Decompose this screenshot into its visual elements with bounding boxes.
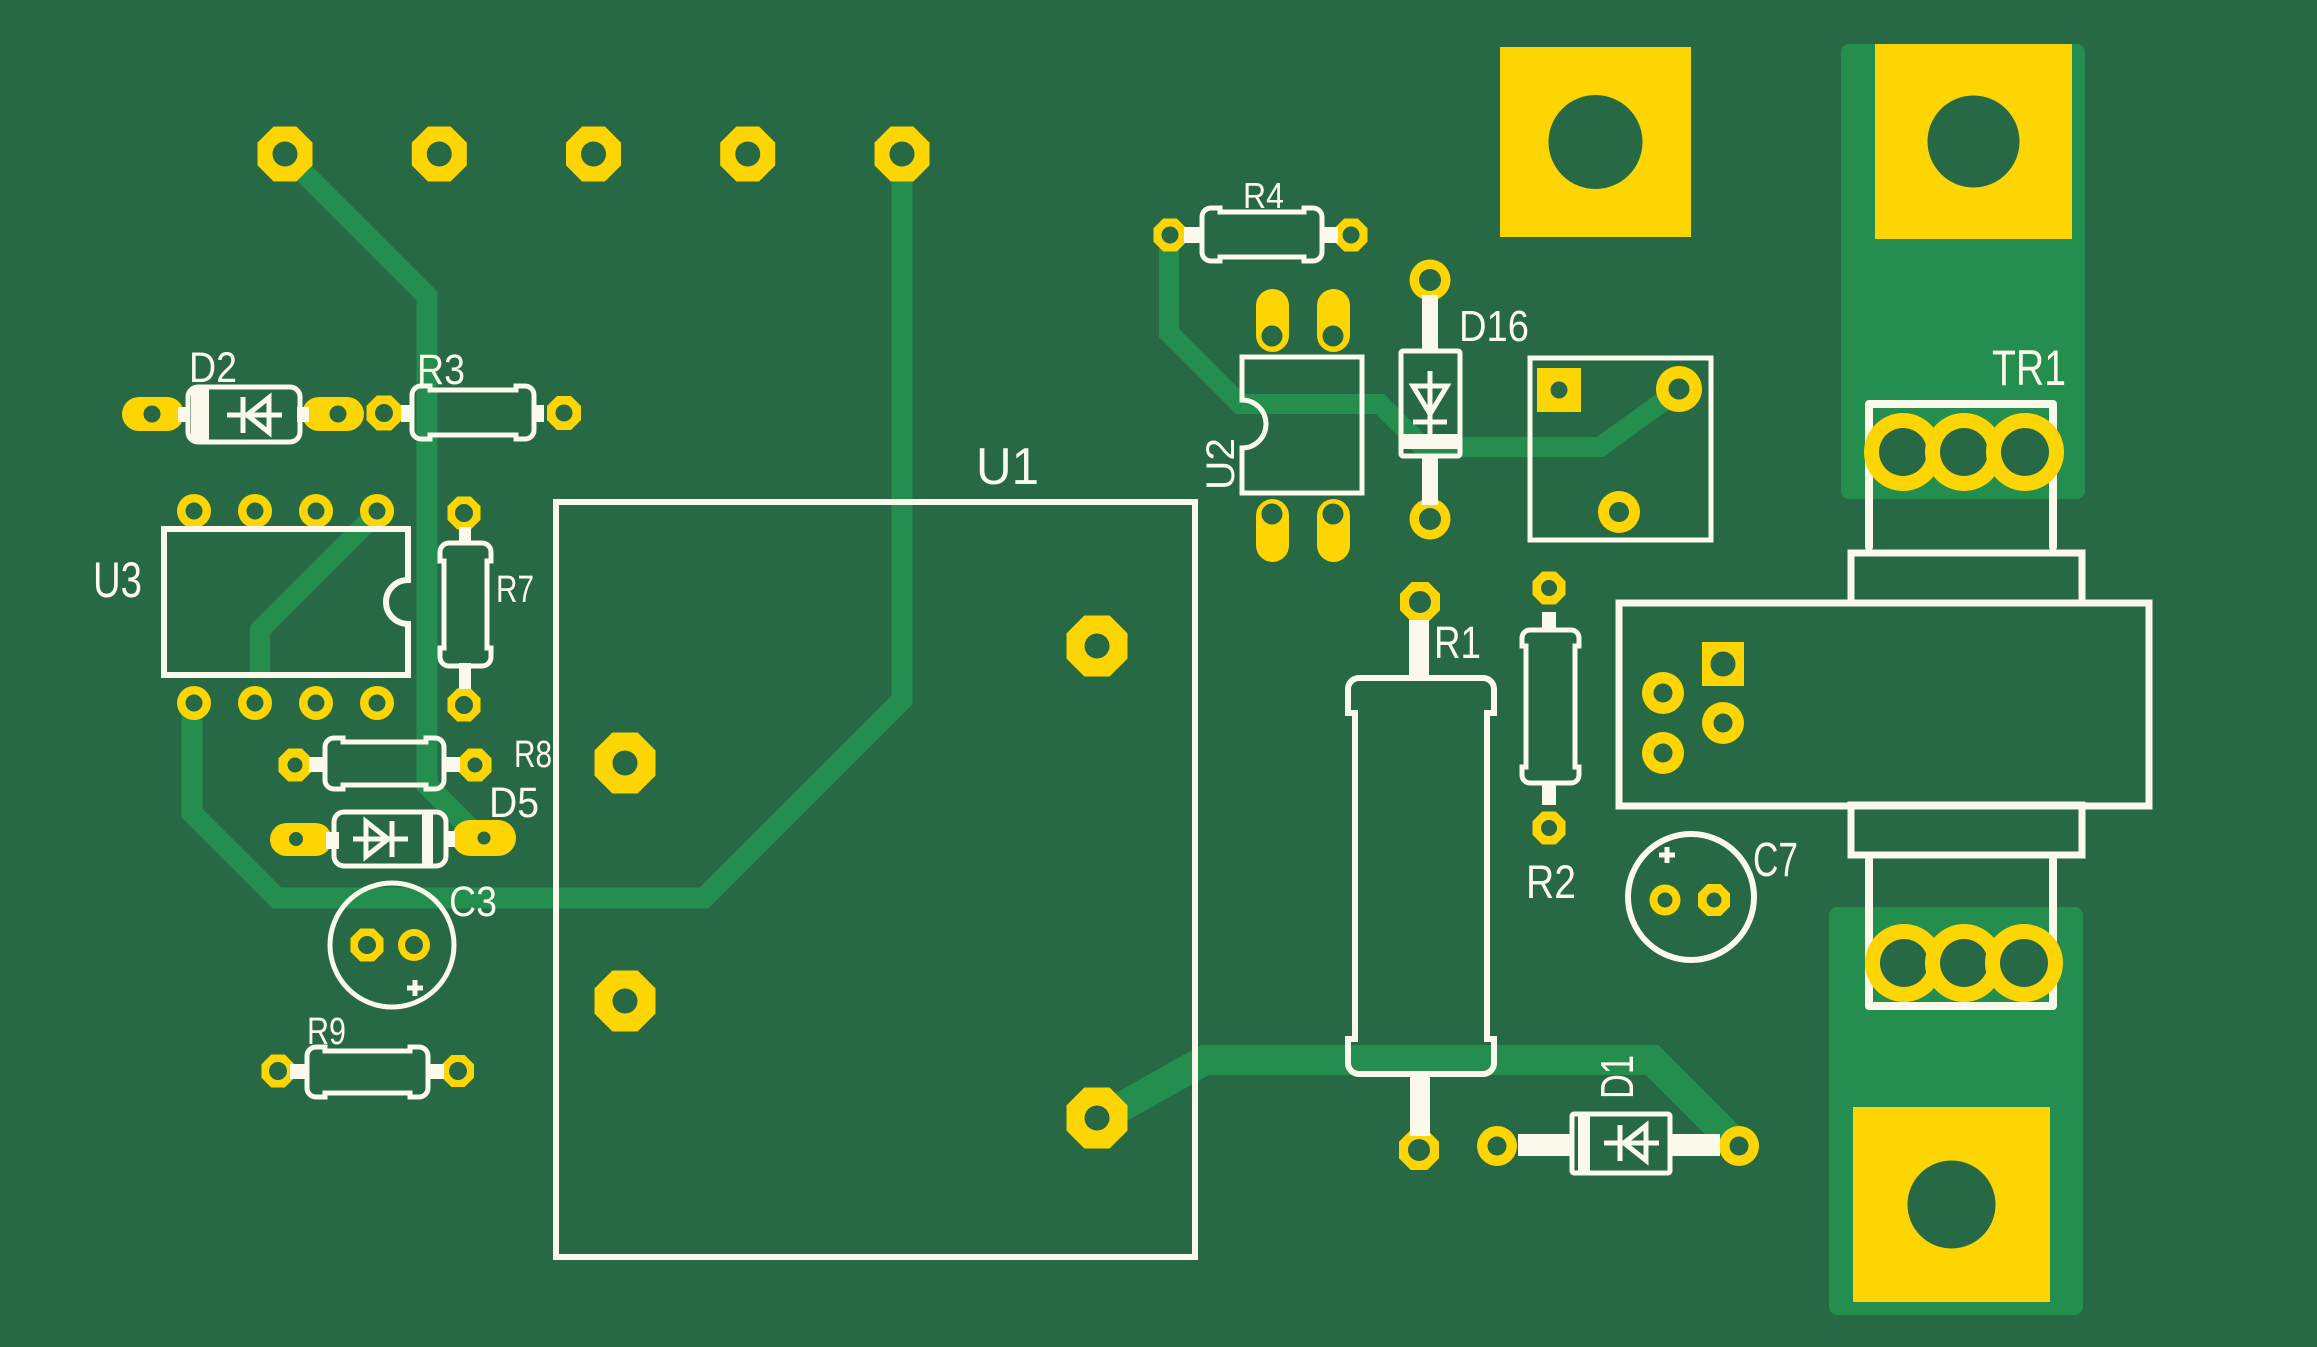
capacitor C7 outline	[1628, 834, 1754, 960]
capacitor C3 pad 1	[351, 929, 384, 962]
wire from via P1 to D5 right pad	[285, 154, 480, 838]
resistor R2 body	[1522, 630, 1579, 783]
TR1 body	[1619, 603, 2149, 806]
IC U1 pad 2	[595, 971, 656, 1032]
svg-text:R7: R7	[496, 569, 534, 611]
IC U1 pad 4	[1067, 1088, 1128, 1149]
TR1 square pad	[1702, 642, 1744, 686]
capacitor C3 pad 2	[398, 929, 430, 961]
TR1 pad B	[1642, 732, 1684, 774]
TR1 copper strip top	[1841, 44, 2085, 499]
svg-text:D1: D1	[1591, 1055, 1643, 1099]
wire from via P5 through U1 to U3 pin 5	[192, 154, 902, 898]
capacitor C7 pad 1	[1650, 885, 1681, 916]
resistor R2 pad 2	[1533, 812, 1566, 845]
resistor R8 body	[325, 738, 444, 789]
resistor R3 body	[412, 386, 534, 439]
wire from U1 pad to D1 right pad	[1100, 1060, 1739, 1147]
TR1 top pin 3	[1986, 413, 2064, 491]
via pad P4	[720, 127, 775, 182]
capacitor C3 outline	[330, 883, 454, 1007]
resistor R2 pad 1	[1533, 572, 1566, 605]
TR1 top coil rect	[1851, 553, 2082, 603]
TR1 bottom pin 3	[1985, 924, 2063, 1002]
svg-text:R3: R3	[417, 346, 465, 394]
diode D1 pad 2	[1719, 1126, 1759, 1166]
diode D16 symbol	[1413, 371, 1447, 437]
connector K1 pad 3	[1598, 491, 1640, 533]
svg-text:U1: U1	[976, 438, 1039, 496]
diode D5 pad 1	[270, 823, 332, 856]
connector K1 body	[1530, 358, 1711, 540]
via pad P2	[412, 127, 467, 182]
TR1 mounting pad bottom	[1853, 1107, 2050, 1302]
diode D16 body	[1401, 351, 1460, 456]
resistor R7 pad 1	[448, 497, 481, 530]
TR1 copper strip bottom	[1829, 907, 2083, 1315]
resistor R9 pad 1	[262, 1055, 295, 1088]
diode D2 leads	[178, 407, 190, 422]
resistor R1 leads	[1409, 620, 1429, 680]
resistor R1 body	[1348, 678, 1494, 1074]
diode D5 body	[334, 812, 446, 866]
svg-text:D16: D16	[1459, 302, 1529, 351]
diode D16 leads	[1422, 295, 1438, 352]
svg-text:R9: R9	[307, 1011, 346, 1053]
IC U2 pad 1	[1256, 289, 1289, 352]
IC U3 body	[164, 529, 408, 675]
via pad P3	[566, 127, 621, 182]
resistor R9 body	[307, 1047, 428, 1097]
IC U3 pads row 2	[177, 686, 211, 720]
wire from U3 pin 4 down	[260, 513, 377, 672]
diode D16 pad 1	[1410, 260, 1451, 301]
TR1 mounting pad top	[1875, 44, 2072, 239]
resistor R7 leads	[459, 527, 471, 545]
diode D1 pad 1	[1477, 1126, 1517, 1166]
svg-text:R8: R8	[514, 734, 552, 776]
resistor R7 pad 2	[448, 689, 481, 722]
diode D1 body	[1572, 1114, 1670, 1173]
resistor R8 leads	[309, 757, 326, 772]
resistor R3 leads	[401, 405, 413, 422]
svg-text:R2: R2	[1526, 855, 1576, 908]
svg-text:C3: C3	[449, 878, 497, 926]
svg-text:TR1: TR1	[1992, 340, 2066, 396]
resistor R4 body	[1202, 208, 1322, 261]
diode D5 leads	[326, 832, 339, 849]
resistor R7 body	[440, 543, 491, 666]
diode D16 pad 2	[1410, 499, 1451, 540]
resistor R8 pad 1	[279, 749, 312, 782]
TR1 bottom pin 2	[1925, 924, 2003, 1002]
resistor R9 pad 2	[442, 1055, 474, 1087]
diode D2 pad 1	[122, 397, 184, 431]
capacitor C3 plus sign	[407, 980, 423, 996]
IC U2 pad 2	[1317, 289, 1350, 352]
TR1 top pin 1	[1864, 413, 1942, 491]
svg-text:D5: D5	[489, 779, 539, 827]
via pad P5	[875, 127, 930, 182]
wire from R4 pad to connector pad	[1169, 236, 1679, 447]
IC U3 pads row 1	[177, 494, 211, 528]
diode D2 body	[188, 387, 300, 442]
resistor R4 pad 2	[1335, 219, 1368, 252]
capacitor C7 pad 2	[1698, 884, 1730, 916]
TR1 bottom coil rect	[1851, 805, 2082, 855]
TR1 pad A	[1642, 672, 1684, 714]
TR1 top pin 2	[1925, 413, 2003, 491]
diode D5 pad 2	[452, 820, 516, 856]
resistor R4 pad 1	[1154, 219, 1187, 252]
resistor R3 pad 2	[547, 396, 581, 430]
connector K1 pad 2	[1656, 366, 1702, 412]
mounting pad P6	[1500, 47, 1691, 237]
svg-text:R4: R4	[1243, 175, 1284, 216]
IC U2 body	[1242, 357, 1362, 493]
IC U1 body	[556, 502, 1195, 1257]
via pad P1	[258, 127, 313, 182]
diode D2 symbol	[227, 397, 282, 433]
svg-text:R1: R1	[1434, 617, 1481, 668]
resistor R4 leads	[1184, 227, 1203, 243]
IC U2 pad 4	[1317, 499, 1350, 562]
resistor R1 pad 2	[1399, 1130, 1439, 1170]
IC U1 pad 3	[1067, 616, 1128, 677]
connector K1 square pad	[1537, 368, 1581, 412]
resistor R9 leads	[290, 1064, 308, 1079]
resistor R2 leads	[1542, 612, 1556, 632]
diode D1 leads	[1518, 1134, 1573, 1156]
resistor R8 pad 2	[459, 749, 492, 782]
TR1 pad C	[1702, 702, 1744, 744]
diode D5 symbol	[353, 821, 408, 857]
svg-text:C7: C7	[1753, 834, 1798, 887]
resistor R1 pad 1	[1400, 582, 1440, 622]
TR1 bottom pin 1	[1865, 924, 1943, 1002]
svg-text:U3: U3	[93, 552, 142, 608]
TR1 top bracket	[1869, 404, 2053, 547]
diode D2 pad 2	[302, 397, 364, 431]
diode D1 symbol	[1604, 1125, 1659, 1161]
IC U2 pad 3	[1256, 499, 1289, 562]
svg-text:U2: U2	[1199, 438, 1243, 490]
IC U1 pad 1	[595, 733, 656, 794]
resistor R3 pad 1	[367, 396, 402, 431]
svg-text:D2: D2	[189, 344, 237, 392]
capacitor C7 plus sign	[1659, 847, 1675, 863]
TR1 bottom bracket	[1869, 860, 2053, 1006]
